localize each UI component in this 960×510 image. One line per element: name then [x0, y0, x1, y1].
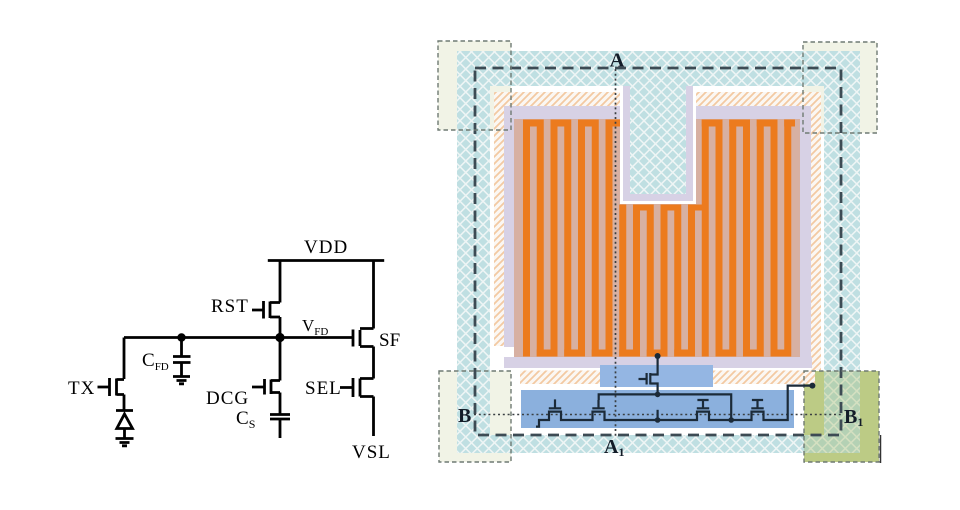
serpentine electrode (orange meander) [523, 120, 795, 357]
svg-text:A: A [610, 50, 625, 72]
olive tint under teal band at bottom-right well [804, 371, 860, 453]
hatch implant ring: top-right segment [696, 92, 821, 106]
svg-text:CFD: CFD [142, 350, 169, 373]
photodiode active area (pink) [514, 119, 800, 357]
poly frame (lavender): top-right segment [696, 106, 811, 120]
transistor SF [353, 329, 374, 347]
svg-text:VDD: VDD [304, 237, 348, 258]
section line A-A1 (vertical dotted) [615, 69, 617, 436]
svg-text:VFD: VFD [302, 316, 328, 338]
corner implant square top-left [438, 41, 511, 130]
svg-text:TX: TX [68, 378, 95, 399]
hatch implant ring: right bar [811, 106, 821, 370]
node FD junction dot [275, 333, 284, 342]
wire SEL source to VSL [372, 397, 375, 437]
poly frame (lavender): bottom bus strip [504, 357, 812, 368]
poly frame (lavender): right bar [800, 119, 811, 368]
readout region: small metal box (light blue) [600, 365, 713, 387]
poly frame (lavender): left bar [504, 119, 514, 347]
ground for CFD [173, 377, 190, 384]
source-drain chain wire [536, 386, 812, 427]
guard-ring frame (teal crosshatch) [457, 51, 860, 453]
svg-text:SF: SF [379, 330, 400, 351]
wire FD corner to TX [123, 338, 126, 380]
top notch trench (teal crosshatch column) [620, 86, 696, 204]
svg-text:VSL: VSL [352, 442, 391, 463]
VDD rail [268, 259, 384, 262]
node: electrode tap junction [655, 353, 661, 359]
wire capacitor CFD [180, 338, 183, 357]
readout region: transistor row box (blue) [521, 390, 794, 428]
figure edge tick [880, 435, 882, 463]
wire rail to SF drain [372, 261, 375, 329]
svg-text:RST: RST [211, 296, 249, 317]
wire DCG source to CS [279, 393, 282, 415]
transistor M1 gate [549, 399, 561, 408]
svg-text:DCG: DCG [206, 388, 249, 409]
node: gate bus drop junction [728, 417, 734, 423]
svg-text:B: B [458, 405, 471, 427]
corner implant square top-right [803, 42, 877, 133]
ground for photodiode [116, 439, 134, 446]
transistor SEL [340, 378, 374, 397]
transistor M4 gate [751, 400, 763, 408]
corner square dashed borders [438, 41, 879, 462]
capacitor CFD [173, 357, 191, 377]
wire RST source to FD node [279, 317, 282, 338]
contact stub [656, 410, 658, 420]
svg-text:CS: CS [236, 408, 255, 431]
capacitor CS [270, 415, 290, 439]
node FD wire [124, 336, 353, 339]
wire FD node to DCG drain [279, 338, 282, 381]
transistor M3 gate [697, 400, 709, 408]
gate bus wire [599, 394, 732, 420]
corner implant square bottom-left [439, 371, 511, 462]
transistor RST [252, 301, 280, 319]
cell boundary (dashed rectangle) [475, 68, 841, 435]
overlay readout circuit (navy) [536, 356, 812, 427]
node CFD junction dot [177, 333, 185, 341]
hatch implant ring: left bar [494, 106, 504, 346]
transistor DCG [252, 379, 280, 395]
node: output pad dot [809, 383, 815, 389]
transistor M2 gate [592, 400, 604, 408]
poly frame (lavender): top-left segment [504, 106, 620, 120]
transistor TX [98, 378, 125, 396]
wire from electrode to follower transistor [639, 356, 658, 394]
wire TX source to photodiode [123, 395, 126, 411]
wire RST drain to rail [279, 261, 282, 303]
node: chain contact junction [655, 417, 661, 423]
hatch implant ring: top-left segment [494, 92, 620, 106]
wire SF source to SEL drain [372, 347, 375, 379]
hatch implant ring: bottom strip [520, 371, 815, 385]
photodiode PD [116, 411, 133, 439]
svg-text:SEL: SEL [305, 378, 342, 399]
node: follower source / gate bus junction [655, 392, 661, 398]
section line B-B1 (horizontal dotted) [474, 414, 843, 416]
corner well square bottom-right (olive) [804, 371, 879, 462]
